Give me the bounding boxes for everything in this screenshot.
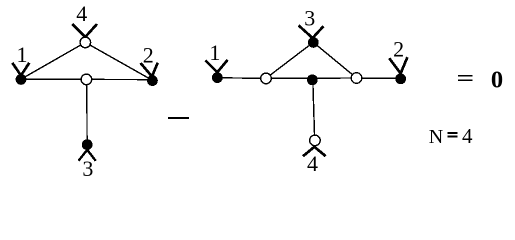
svg-text:1: 1 xyxy=(17,42,28,67)
svg-text:0: 0 xyxy=(491,66,503,93)
svg-text:3: 3 xyxy=(304,5,315,30)
svg-text:3: 3 xyxy=(82,156,93,177)
svg-text:4: 4 xyxy=(462,124,473,148)
svg-text:2: 2 xyxy=(143,42,154,67)
svg-text:4: 4 xyxy=(76,1,87,26)
svg-text:N: N xyxy=(429,126,443,148)
svg-text:2: 2 xyxy=(393,37,404,62)
svg-text:4: 4 xyxy=(307,151,318,176)
svg-text:1: 1 xyxy=(209,40,220,65)
